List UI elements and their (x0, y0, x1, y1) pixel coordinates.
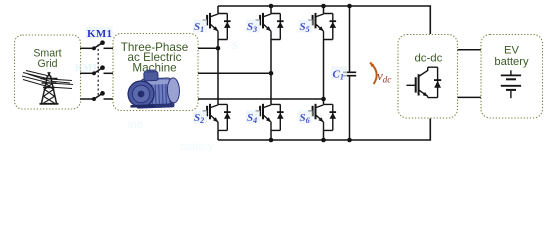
junction top capacitor (347, 4, 352, 9)
svg-text:S: S (232, 40, 238, 52)
capacitor C1 (349, 6, 351, 140)
EV battery box (481, 35, 543, 119)
dc-dc IGBT icon (406, 67, 441, 97)
junction top leg2 (269, 4, 274, 9)
leg2 wire (270, 6, 272, 140)
contactor pole A (80, 41, 113, 49)
IGBT S2 (203, 104, 231, 131)
svg-text:KM1: KM1 (87, 28, 112, 40)
phase wire B machine to leg2 (198, 72, 271, 74)
junction bottom capacitor (347, 138, 352, 143)
junction top leg3 (321, 4, 326, 9)
label C1 (331, 67, 347, 80)
label S4 (246, 111, 260, 124)
svg-text:battery: battery (494, 56, 529, 68)
junction bottom leg3 (321, 138, 326, 143)
IGBT S4 (256, 104, 284, 131)
label S2 (193, 111, 207, 124)
wire dcdc to battery bottom (458, 96, 482, 98)
label S6 (299, 111, 313, 124)
svg-text:vdc: vdc (377, 68, 391, 85)
phase wire A machine to leg1 (198, 47, 218, 49)
dc-dc converter box (398, 35, 458, 119)
node phase C (321, 97, 326, 102)
IGBT S6 (308, 104, 336, 131)
svg-text:KM1: KM1 (75, 63, 97, 74)
svg-text:ine: ine (128, 119, 143, 131)
label S3 (246, 20, 260, 33)
battery symbol (501, 70, 521, 98)
svg-text:battery: battery (180, 141, 214, 151)
leg3 wire (323, 6, 325, 140)
label S5 (299, 20, 313, 33)
contactor KM1 label (86, 27, 113, 39)
contactor pole B (80, 66, 113, 74)
svg-text:EV: EV (504, 45, 519, 57)
contactor linkage dashed (97, 45, 99, 97)
motor icon (127, 69, 180, 109)
svg-text:dc-dc: dc-dc (414, 53, 442, 65)
junction bottom leg2 (269, 138, 274, 143)
contactor pole C (80, 92, 113, 100)
vdc arrow (370, 63, 377, 85)
phase wire C machine to leg3 (198, 98, 324, 100)
dc bus top (218, 6, 430, 34)
IGBT S3 (256, 13, 284, 40)
label S1 (193, 20, 207, 33)
IGBT S1 (203, 13, 231, 40)
dc bus bottom (218, 119, 430, 141)
transmission tower icon (22, 71, 73, 104)
node phase A (216, 46, 221, 51)
IGBT S5 (308, 13, 336, 40)
wire dcdc to battery top (458, 49, 482, 51)
three-phase machine box (113, 34, 198, 111)
leg1 wire (217, 6, 219, 140)
smart grid box (15, 35, 81, 109)
svg-text:Grid: Grid (37, 58, 57, 70)
node phase B (269, 71, 274, 76)
